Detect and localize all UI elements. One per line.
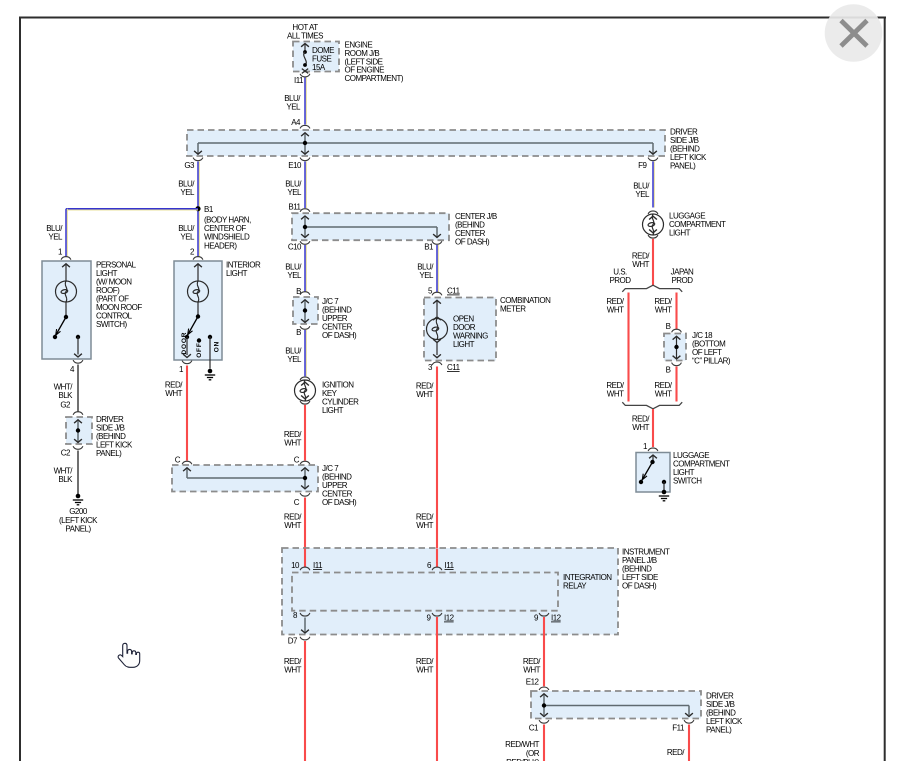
J/C 7 lower internal wire	[183, 468, 309, 489]
connector pin 10 I11 at integration relay	[291, 561, 323, 570]
interior light bulb and 3-position switch	[183, 264, 212, 369]
connector B at J/C 18 bottom	[666, 363, 682, 375]
svg-text:1: 1	[58, 248, 63, 257]
center J/B internal wire	[301, 216, 441, 237]
connector pin 6 I11 at integration relay	[427, 561, 455, 570]
svg-text:LIGHT: LIGHT	[226, 269, 248, 278]
label HOT AT ALL TIMES	[287, 23, 323, 41]
connector B11 at center J/B	[288, 203, 310, 212]
interior light name label	[226, 261, 261, 279]
svg-text:B: B	[666, 366, 671, 375]
connector B at J/C 7 bottom	[296, 326, 310, 337]
luggage compartment light label	[669, 212, 726, 238]
connector B at J/C 18 top	[666, 322, 682, 332]
wire BLU/YEL B1 branch to personal light	[46, 209, 198, 257]
ignition key cylinder light label	[322, 381, 359, 416]
wire BLU/YEL C10 to J/C 7 pin B	[285, 245, 306, 292]
svg-text:OF DASH): OF DASH)	[455, 238, 490, 247]
connector F11	[672, 720, 694, 732]
connector C at J/C 7 lower bottom	[294, 493, 310, 507]
production merge brace bottom	[622, 402, 682, 409]
svg-text:YEL: YEL	[287, 188, 302, 197]
connector pin 1 of luggage light switch	[643, 442, 658, 451]
connector B1 at center J/B	[424, 241, 442, 251]
svg-text:WHT: WHT	[607, 306, 624, 315]
svg-text:OF DASH): OF DASH)	[322, 498, 357, 507]
svg-text:ON: ON	[214, 341, 221, 352]
svg-text:G2: G2	[60, 401, 71, 410]
wire BLU/YEL fuse to driver side J/B pin A4	[284, 78, 306, 125]
driver side J/B bottom internal wire	[540, 694, 693, 717]
svg-text:WHT: WHT	[632, 260, 649, 269]
svg-text:PROD: PROD	[671, 276, 693, 285]
svg-text:RELAY: RELAY	[563, 582, 587, 591]
svg-text:(OR: (OR	[526, 749, 540, 758]
connector E10	[288, 158, 310, 170]
engine room J/B box	[293, 42, 339, 72]
connector pin 3 C11 at combination meter	[428, 362, 461, 372]
svg-text:YEL: YEL	[48, 233, 63, 242]
svg-text:ALL TIMES: ALL TIMES	[287, 32, 323, 41]
wire BLU/YEL E10 to center J/B pin B11	[285, 162, 306, 209]
svg-text:C11: C11	[447, 363, 461, 372]
fuse DOME FUSE 15A	[301, 44, 309, 74]
wire RED/WHT D7 down off page	[284, 641, 305, 761]
center J/B location label	[455, 212, 497, 247]
svg-text:WHT: WHT	[416, 666, 433, 675]
svg-text:WHT: WHT	[284, 439, 301, 448]
ground at interior light ON contact	[205, 369, 215, 380]
J/C 18 location label	[692, 331, 731, 366]
label JAPAN PROD	[671, 268, 694, 286]
svg-text:YEL: YEL	[180, 188, 195, 197]
svg-text:DOOR: DOOR	[181, 332, 188, 355]
svg-text:I12: I12	[444, 614, 455, 623]
connector B at J/C 7 top	[296, 287, 310, 296]
svg-text:RED/: RED/	[667, 748, 685, 757]
connector pin 1 of interior light	[179, 361, 192, 374]
wire RED/WHT (OR RED/BLK) C1 down off page	[505, 725, 544, 761]
svg-text:PANEL): PANEL)	[670, 162, 696, 171]
svg-text:C2: C2	[61, 449, 71, 458]
label U.S. PROD	[609, 268, 631, 286]
connector G2	[60, 401, 83, 415]
svg-text:LIGHT: LIGHT	[453, 340, 475, 349]
junction dot in driver side J/B	[303, 141, 307, 145]
svg-text:BLK: BLK	[58, 475, 73, 484]
J/C 18 internal wire	[673, 336, 681, 359]
page frame right border	[884, 17, 886, 761]
svg-text:I12: I12	[551, 614, 562, 623]
combination meter name label	[500, 296, 551, 314]
svg-text:YEL: YEL	[287, 355, 302, 364]
connector pin 4 of personal light	[70, 360, 83, 374]
svg-text:WHT: WHT	[655, 306, 672, 315]
close button	[825, 4, 883, 62]
personal light name label	[96, 261, 142, 330]
svg-text:YEL: YEL	[180, 233, 195, 242]
svg-text:BLK: BLK	[58, 391, 73, 400]
svg-text:E10: E10	[288, 161, 302, 170]
svg-text:B: B	[296, 328, 301, 337]
svg-text:I11: I11	[313, 561, 323, 570]
svg-text:WHT: WHT	[284, 666, 301, 675]
page frame left border	[19, 17, 21, 761]
svg-text:LIGHT: LIGHT	[322, 406, 344, 415]
connector pin 5 C11 at combination meter	[428, 287, 461, 296]
connector C left at J/C 7 lower	[175, 456, 192, 465]
connector D7	[288, 637, 310, 646]
wire RED/WHT Japan prod branch upper	[654, 293, 676, 330]
driver side J/B bottom location label	[706, 692, 743, 735]
svg-text:SWITCH: SWITCH	[673, 477, 702, 486]
driver side J/B box (top)	[187, 130, 665, 156]
open door warning light lamp	[427, 300, 448, 357]
svg-text:COMPARTMENT): COMPARTMENT)	[345, 74, 404, 83]
svg-text:C: C	[294, 498, 300, 507]
node B1 body harness splice	[195, 206, 200, 211]
wire RED/WHT combination meter to integration relay pin 6	[416, 367, 437, 568]
svg-text:PANEL): PANEL)	[65, 525, 91, 534]
J/C 7 lower box	[172, 465, 318, 492]
svg-text:G3: G3	[184, 161, 195, 170]
svg-text:D7: D7	[288, 637, 298, 646]
wire RED F11 down off page	[667, 725, 689, 761]
connector C1	[529, 720, 549, 732]
wire RED/WHT relay pin 9 right to E12	[523, 617, 544, 686]
wire RED/WHT Japan prod branch lower	[654, 367, 676, 402]
connector G3	[184, 158, 203, 170]
svg-text:YEL: YEL	[635, 190, 650, 199]
integration relay box	[292, 573, 558, 611]
driver side J/B internal bus wire	[194, 133, 657, 154]
svg-text:A4: A4	[291, 118, 301, 127]
J/C 7 upper box	[293, 297, 318, 324]
svg-text:WHT: WHT	[284, 521, 301, 530]
wire WHT/BLK personal light to G2	[54, 365, 78, 412]
J/C 18 box	[664, 334, 686, 361]
junction dot in center J/B	[303, 225, 307, 229]
svg-text:B1: B1	[424, 243, 434, 252]
wire RED/WHT ignition key light to J/C 7 pin C	[284, 405, 305, 461]
svg-text:WHT: WHT	[607, 390, 624, 399]
connector F9	[638, 158, 658, 170]
svg-text:WHT: WHT	[523, 666, 540, 675]
svg-text:PANEL): PANEL)	[96, 449, 122, 458]
wire RED/WHT interior light to J/C 7	[165, 366, 187, 461]
svg-text:C11: C11	[447, 287, 461, 296]
instrument panel J/B location label	[622, 548, 670, 591]
ground G200	[73, 494, 83, 505]
svg-text:E12: E12	[526, 678, 540, 687]
svg-text:10: 10	[291, 561, 300, 570]
junction dot in J/C 7 lower	[303, 476, 307, 480]
svg-text:PROD: PROD	[609, 276, 631, 285]
wire BLU/YEL J/C 7 to ignition key cylinder light	[285, 330, 306, 376]
open door warning light label	[453, 315, 488, 350]
svg-text:WHT: WHT	[632, 423, 649, 432]
luggage compartment light switch contacts	[639, 455, 666, 490]
svg-text:4: 4	[70, 365, 75, 374]
svg-text:1: 1	[179, 365, 184, 374]
page frame top border	[19, 17, 886, 19]
wire RED/WHT merge to luggage light switch	[632, 409, 653, 447]
svg-text:WHT: WHT	[416, 521, 433, 530]
node B1 label	[204, 205, 251, 250]
svg-text:HEADER): HEADER)	[204, 241, 237, 250]
svg-text:LIGHT: LIGHT	[669, 229, 691, 238]
combination meter box	[424, 298, 496, 361]
svg-text:YEL: YEL	[419, 271, 434, 280]
luggage compartment light lamp	[643, 211, 664, 238]
production split brace top	[622, 285, 682, 292]
svg-text:G200: G200	[69, 507, 88, 516]
svg-text:B: B	[666, 322, 671, 331]
svg-text:PANEL): PANEL)	[706, 726, 732, 735]
svg-text:WHT: WHT	[655, 390, 672, 399]
svg-text:SWITCH): SWITCH)	[96, 320, 128, 329]
engine room J/B location label	[345, 41, 404, 84]
svg-text:OF DASH): OF DASH)	[622, 582, 657, 591]
wire WHT/BLK C2 to ground G200	[54, 451, 78, 495]
hand cursor	[118, 643, 140, 667]
J/C 7 upper location label	[322, 297, 357, 340]
wire RED/WHT J/C 7 to integration relay pin 10	[284, 498, 305, 568]
connector C10	[288, 241, 310, 251]
wire RED/WHT stub crossing instrument panel J/B top at pin 6	[436, 549, 438, 568]
interior light component box	[174, 261, 222, 360]
junction dot in driver side J/B bottom	[542, 703, 546, 707]
wire BLU/YEL G3 to interior light	[178, 162, 199, 258]
J/C 7 lower location label	[322, 464, 357, 507]
wire RED/WHT relay pin 9 middle down off page	[416, 617, 437, 761]
svg-text:2: 2	[190, 248, 195, 257]
svg-text:I11: I11	[294, 76, 304, 85]
wire BLU/YEL center J/B B1 to combination meter	[417, 245, 438, 292]
connector pin 9 I12 middle at integration relay bottom	[427, 613, 455, 623]
connector A4 at driver side J/B	[291, 118, 310, 128]
instrument panel J/B box	[282, 548, 618, 635]
ground at luggage light switch	[659, 490, 669, 501]
connector pin 1 of personal light	[58, 248, 71, 260]
svg-text:C: C	[175, 456, 181, 465]
J/C 7 upper internal wire	[301, 300, 309, 323]
connector pin 9 I12 right at integration relay bottom	[534, 613, 562, 623]
ignition key cylinder light lamp	[295, 377, 316, 404]
center J/B box	[292, 213, 449, 240]
driver side J/B small box label	[96, 415, 133, 458]
svg-text:OF DASH): OF DASH)	[322, 331, 357, 340]
connector C2	[61, 446, 83, 457]
ground G200 label	[59, 507, 98, 534]
svg-text:B11: B11	[288, 203, 301, 212]
luggage compartment light switch label	[673, 451, 730, 486]
svg-text:F11: F11	[672, 724, 685, 733]
connector E12 at driver side J/B bottom	[526, 678, 549, 691]
driver side J/B small box (G2-C2)	[66, 417, 92, 444]
personal light bulb and switch	[53, 264, 82, 357]
connector I11 at engine room J/B	[294, 74, 310, 85]
svg-text:METER: METER	[500, 305, 526, 314]
svg-text:F9: F9	[638, 161, 647, 170]
svg-text:C: C	[294, 456, 300, 465]
driver side J/B location label (top)	[670, 128, 707, 171]
personal light component box	[42, 261, 91, 359]
svg-text:C1: C1	[529, 724, 539, 733]
wire RED/WHT U.S. prod branch	[606, 293, 628, 402]
integration relay name label	[563, 573, 612, 591]
svg-text:15A: 15A	[312, 63, 326, 72]
svg-text:WHT: WHT	[165, 389, 182, 398]
connector pin 2 of interior light	[190, 248, 203, 260]
svg-text:WHT: WHT	[416, 390, 433, 399]
svg-text:RED/WHT: RED/WHT	[505, 740, 539, 749]
svg-text:YEL: YEL	[287, 271, 302, 280]
svg-text:B1: B1	[204, 205, 214, 214]
instrument panel J/B internal wire pin 8 to D7	[301, 618, 309, 634]
wire RED/WHT stub crossing instrument panel J/B top at pin 10	[304, 549, 306, 568]
svg-text:1: 1	[643, 442, 648, 451]
luggage compartment light switch box	[636, 453, 670, 493]
driver side J/B G2-C2 internal wire	[74, 420, 82, 443]
svg-text:C10: C10	[288, 243, 302, 252]
connector pin 8 at integration relay bottom	[293, 611, 310, 620]
wire RED/WHT luggage light to production split	[632, 239, 653, 286]
wire BLU/YEL F9 to luggage compartment light	[633, 162, 654, 208]
svg-text:I11: I11	[445, 561, 455, 570]
svg-text:YEL: YEL	[286, 103, 301, 112]
fuse value label DOME FUSE 15A	[312, 46, 334, 72]
connector C right at J/C 7 lower	[294, 456, 310, 465]
svg-text:OFF: OFF	[196, 342, 203, 357]
svg-text:“C” PILLAR): “C” PILLAR)	[692, 357, 731, 366]
driver side J/B box (bottom)	[531, 691, 701, 719]
